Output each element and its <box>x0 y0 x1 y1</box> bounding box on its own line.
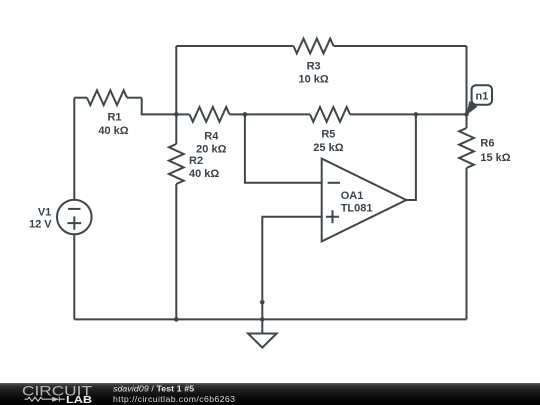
svg-text:R6: R6 <box>480 138 494 150</box>
svg-text:TL081: TL081 <box>341 203 373 215</box>
junction plus-wire to ground terminal <box>260 300 265 305</box>
wire bottom rail <box>74 318 466 320</box>
resistor R3 <box>294 39 334 54</box>
wire V1 bottom lead <box>73 234 75 319</box>
op-amp OA1 triangle <box>322 159 407 242</box>
svg-text:40 kΩ: 40 kΩ <box>189 168 219 180</box>
wire inverting input (node to op-amp minus) <box>245 114 322 182</box>
svg-text:40 kΩ: 40 kΩ <box>98 125 128 137</box>
voltage source V1 <box>57 200 92 235</box>
svg-text:OA1: OA1 <box>341 190 364 202</box>
svg-text:R4: R4 <box>204 130 219 142</box>
resistor R2 <box>169 114 184 319</box>
svg-text:R1: R1 <box>107 112 121 124</box>
svg-text:12 V: 12 V <box>29 219 52 231</box>
wire left vertical top (R1 left to V1 top) <box>73 98 75 200</box>
svg-text:15 kΩ: 15 kΩ <box>480 152 510 164</box>
wire op-amp output node to n1 node <box>416 113 467 115</box>
svg-text:20 kΩ: 20 kΩ <box>196 143 226 155</box>
wire top rail right <box>334 45 467 47</box>
resistor R5 <box>245 107 416 122</box>
svg-text:sdavid09 / Test 1 #5: sdavid09 / Test 1 #5 <box>113 383 194 393</box>
junction n1 node <box>464 112 469 117</box>
footer bar <box>0 383 540 405</box>
svg-text:LAB: LAB <box>66 395 92 405</box>
op-amp plus pin symbol <box>326 210 339 223</box>
node n1 flag <box>467 85 493 115</box>
logo schematic resistor squiggle and diode <box>25 397 65 402</box>
wire ground stub <box>261 302 263 333</box>
svg-text:25 kΩ: 25 kΩ <box>313 142 343 154</box>
svg-text:V1: V1 <box>38 206 51 218</box>
op-amp minus pin symbol <box>328 182 340 184</box>
svg-text:10 kΩ: 10 kΩ <box>298 74 328 86</box>
wire non-inverting input (op-amp plus down to ground node) <box>262 217 321 303</box>
svg-text:R2: R2 <box>189 155 203 167</box>
wire right vertical top (top rail to n1 node) <box>466 46 468 114</box>
wire middle vertical upper (node to top rail) <box>175 46 177 114</box>
junction R5/output node <box>414 112 419 117</box>
ground <box>248 334 277 348</box>
junction R2 bottom rail <box>174 317 179 322</box>
junction ground stub at bottom rail <box>260 317 265 322</box>
wire top rail left <box>176 45 293 47</box>
resistor R6 <box>459 114 474 319</box>
svg-text:n1: n1 <box>475 91 488 103</box>
junction R1/R2/R4 node <box>174 112 179 117</box>
resistor R4 <box>176 107 245 122</box>
wire R1 to node at middle rail <box>142 98 177 115</box>
svg-text:R5: R5 <box>321 129 335 141</box>
junction R4/R5/minus node <box>243 112 248 117</box>
junction node dots <box>174 112 469 322</box>
svg-text:R3: R3 <box>307 60 321 72</box>
resistor R1 <box>74 90 141 105</box>
wire op-amp output <box>406 114 416 200</box>
svg-text:http://circuitlab.com/c6b6263: http://circuitlab.com/c6b6263 <box>113 394 235 404</box>
